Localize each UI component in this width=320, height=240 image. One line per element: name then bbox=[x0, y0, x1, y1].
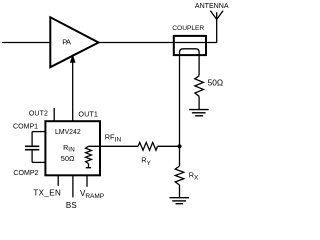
wire: PA output to coupler to antenna corner bbox=[99, 42, 217, 44]
svg-text:LMV242: LMV242 bbox=[55, 129, 81, 136]
wire: antenna feed bbox=[216, 12, 218, 42]
pin TX_EN stub bbox=[33, 176, 61, 198]
svg-text:VRAMP: VRAMP bbox=[80, 189, 104, 200]
resistor 50 ohm (coupler termination) bbox=[195, 76, 223, 109]
coupler box bbox=[172, 25, 206, 55]
svg-text:COMP1: COMP1 bbox=[13, 123, 38, 130]
svg-text:RY: RY bbox=[141, 156, 151, 167]
svg-text:COMP2: COMP2 bbox=[13, 170, 38, 177]
label RIN 50ohm (internal resistor value) bbox=[61, 143, 75, 163]
capacitor C1 bbox=[25, 146, 39, 149]
resistor RX bbox=[175, 146, 199, 197]
svg-text:TX_EN: TX_EN bbox=[33, 188, 61, 197]
pin COMP2 wire bbox=[13, 150, 45, 177]
coupled line (bent line inside coupler) bbox=[180, 49, 200, 146]
svg-text:COUPLER: COUPLER bbox=[172, 25, 204, 32]
svg-text:RFIN: RFIN bbox=[105, 133, 122, 144]
svg-text:50Ω: 50Ω bbox=[61, 154, 75, 163]
svg-text:OUT2: OUT2 bbox=[29, 111, 48, 118]
antenna bbox=[195, 3, 229, 19]
node junction bbox=[177, 144, 181, 148]
wire: PA input line bbox=[2, 42, 50, 44]
amplifier PA bbox=[50, 17, 98, 67]
svg-text:RX: RX bbox=[189, 171, 199, 182]
svg-text:PA: PA bbox=[62, 38, 71, 47]
internal resistor RIN bbox=[86, 146, 92, 168]
IC U1 LMV242 bbox=[45, 121, 100, 175]
ground (below 50 ohm) bbox=[189, 110, 209, 116]
net RFIN wire bbox=[89, 133, 139, 147]
pin OUT2 stub bbox=[29, 108, 54, 121]
resistor RY bbox=[138, 142, 158, 166]
pin VRAMP stub bbox=[80, 176, 104, 200]
pin COMP1 wire bbox=[13, 123, 45, 145]
ground (below RX) bbox=[170, 198, 190, 204]
svg-text:ANTENNA: ANTENNA bbox=[195, 3, 229, 10]
svg-text:BS: BS bbox=[66, 201, 77, 210]
wire: RY to junction bbox=[158, 145, 180, 147]
svg-text:50Ω: 50Ω bbox=[208, 77, 223, 87]
control line OUT1 to PA with arrow bbox=[70, 54, 76, 121]
svg-text:OUT1: OUT1 bbox=[78, 110, 98, 119]
pin BS stub bbox=[66, 176, 77, 211]
